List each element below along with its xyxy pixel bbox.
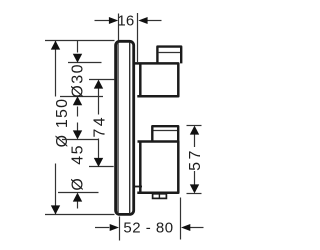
dim 52-80 (95, 198, 204, 241)
plate outer (116, 41, 134, 214)
button (153, 194, 167, 199)
svg-text:Ø 45: Ø 45 (70, 144, 87, 191)
svg-text:74: 74 (92, 115, 109, 138)
plate inner right line (129, 43, 131, 214)
bottom handle cap (152, 126, 178, 141)
dim 30 with 45 shared column (60, 41, 103, 117)
top handle cap inner line (159, 52, 180, 54)
bottom handle sleeve close (133, 186, 142, 188)
svg-text:Ø30: Ø30 (70, 63, 87, 98)
bottom handle cap inner line (154, 130, 178, 132)
dim 16 (95, 13, 162, 63)
dim 74 (89, 80, 114, 167)
dim 150 (45, 41, 115, 215)
svg-text:16: 16 (117, 12, 134, 29)
top handle base (135, 63, 178, 96)
plate inner left line (117, 43, 119, 214)
dim 45 (58, 123, 99, 209)
svg-text:57: 57 (187, 148, 204, 171)
svg-text:52 - 80: 52 - 80 (123, 220, 173, 237)
top handle cap (157, 47, 181, 64)
bottom handle base (137, 142, 178, 193)
dim 57 (187, 126, 202, 194)
